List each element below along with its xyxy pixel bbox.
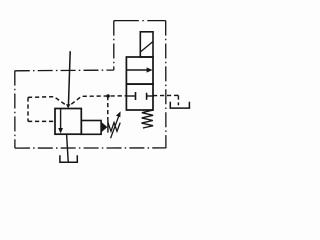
enclosure boundary (dash-dot L-frame) <box>15 21 167 149</box>
solenoid diagonal <box>140 42 153 53</box>
main spring under box <box>142 110 154 128</box>
adjustment arrow through spring <box>111 117 119 139</box>
pilot line: right dashed branch <box>71 96 126 104</box>
main stage valve body (box) <box>55 109 81 135</box>
flow arrow (open path) <box>126 69 147 71</box>
tank symbol <box>60 155 77 162</box>
arrowhead into main valve pilot <box>66 104 70 108</box>
internal flow path down-arrow <box>60 109 62 130</box>
left blocked port T <box>126 95 135 97</box>
wire: enclosure right edge <box>165 21 167 148</box>
pilot drain line (dashed) to external tank <box>153 95 178 105</box>
main stage / balanced piston box <box>126 84 153 110</box>
wire: enclosure left edge <box>14 71 16 149</box>
wire: enclosure top edge <box>114 20 166 22</box>
wire: enclosure middle edge <box>15 69 114 72</box>
wire: enclosure inner vertical edge <box>113 21 115 71</box>
right blocked port T <box>147 95 153 97</box>
wire: pressure inlet line P <box>68 51 70 106</box>
external drain tank symbol <box>170 102 189 108</box>
wire: enclosure bottom edge <box>15 147 166 149</box>
wire: drain line to tank <box>67 134 69 161</box>
pilot relief spring <box>108 123 120 132</box>
2/2 solenoid valve body <box>126 57 153 84</box>
seat line <box>107 120 109 133</box>
solenoid actuator box <box>140 32 153 57</box>
pilot line: left dashed branch box <box>28 97 67 122</box>
junction node dot <box>106 94 110 98</box>
pilot check box <box>81 121 101 135</box>
pilot line: dashed drop to relief seat <box>107 96 109 120</box>
check poppet (filled triangle) <box>101 122 107 132</box>
